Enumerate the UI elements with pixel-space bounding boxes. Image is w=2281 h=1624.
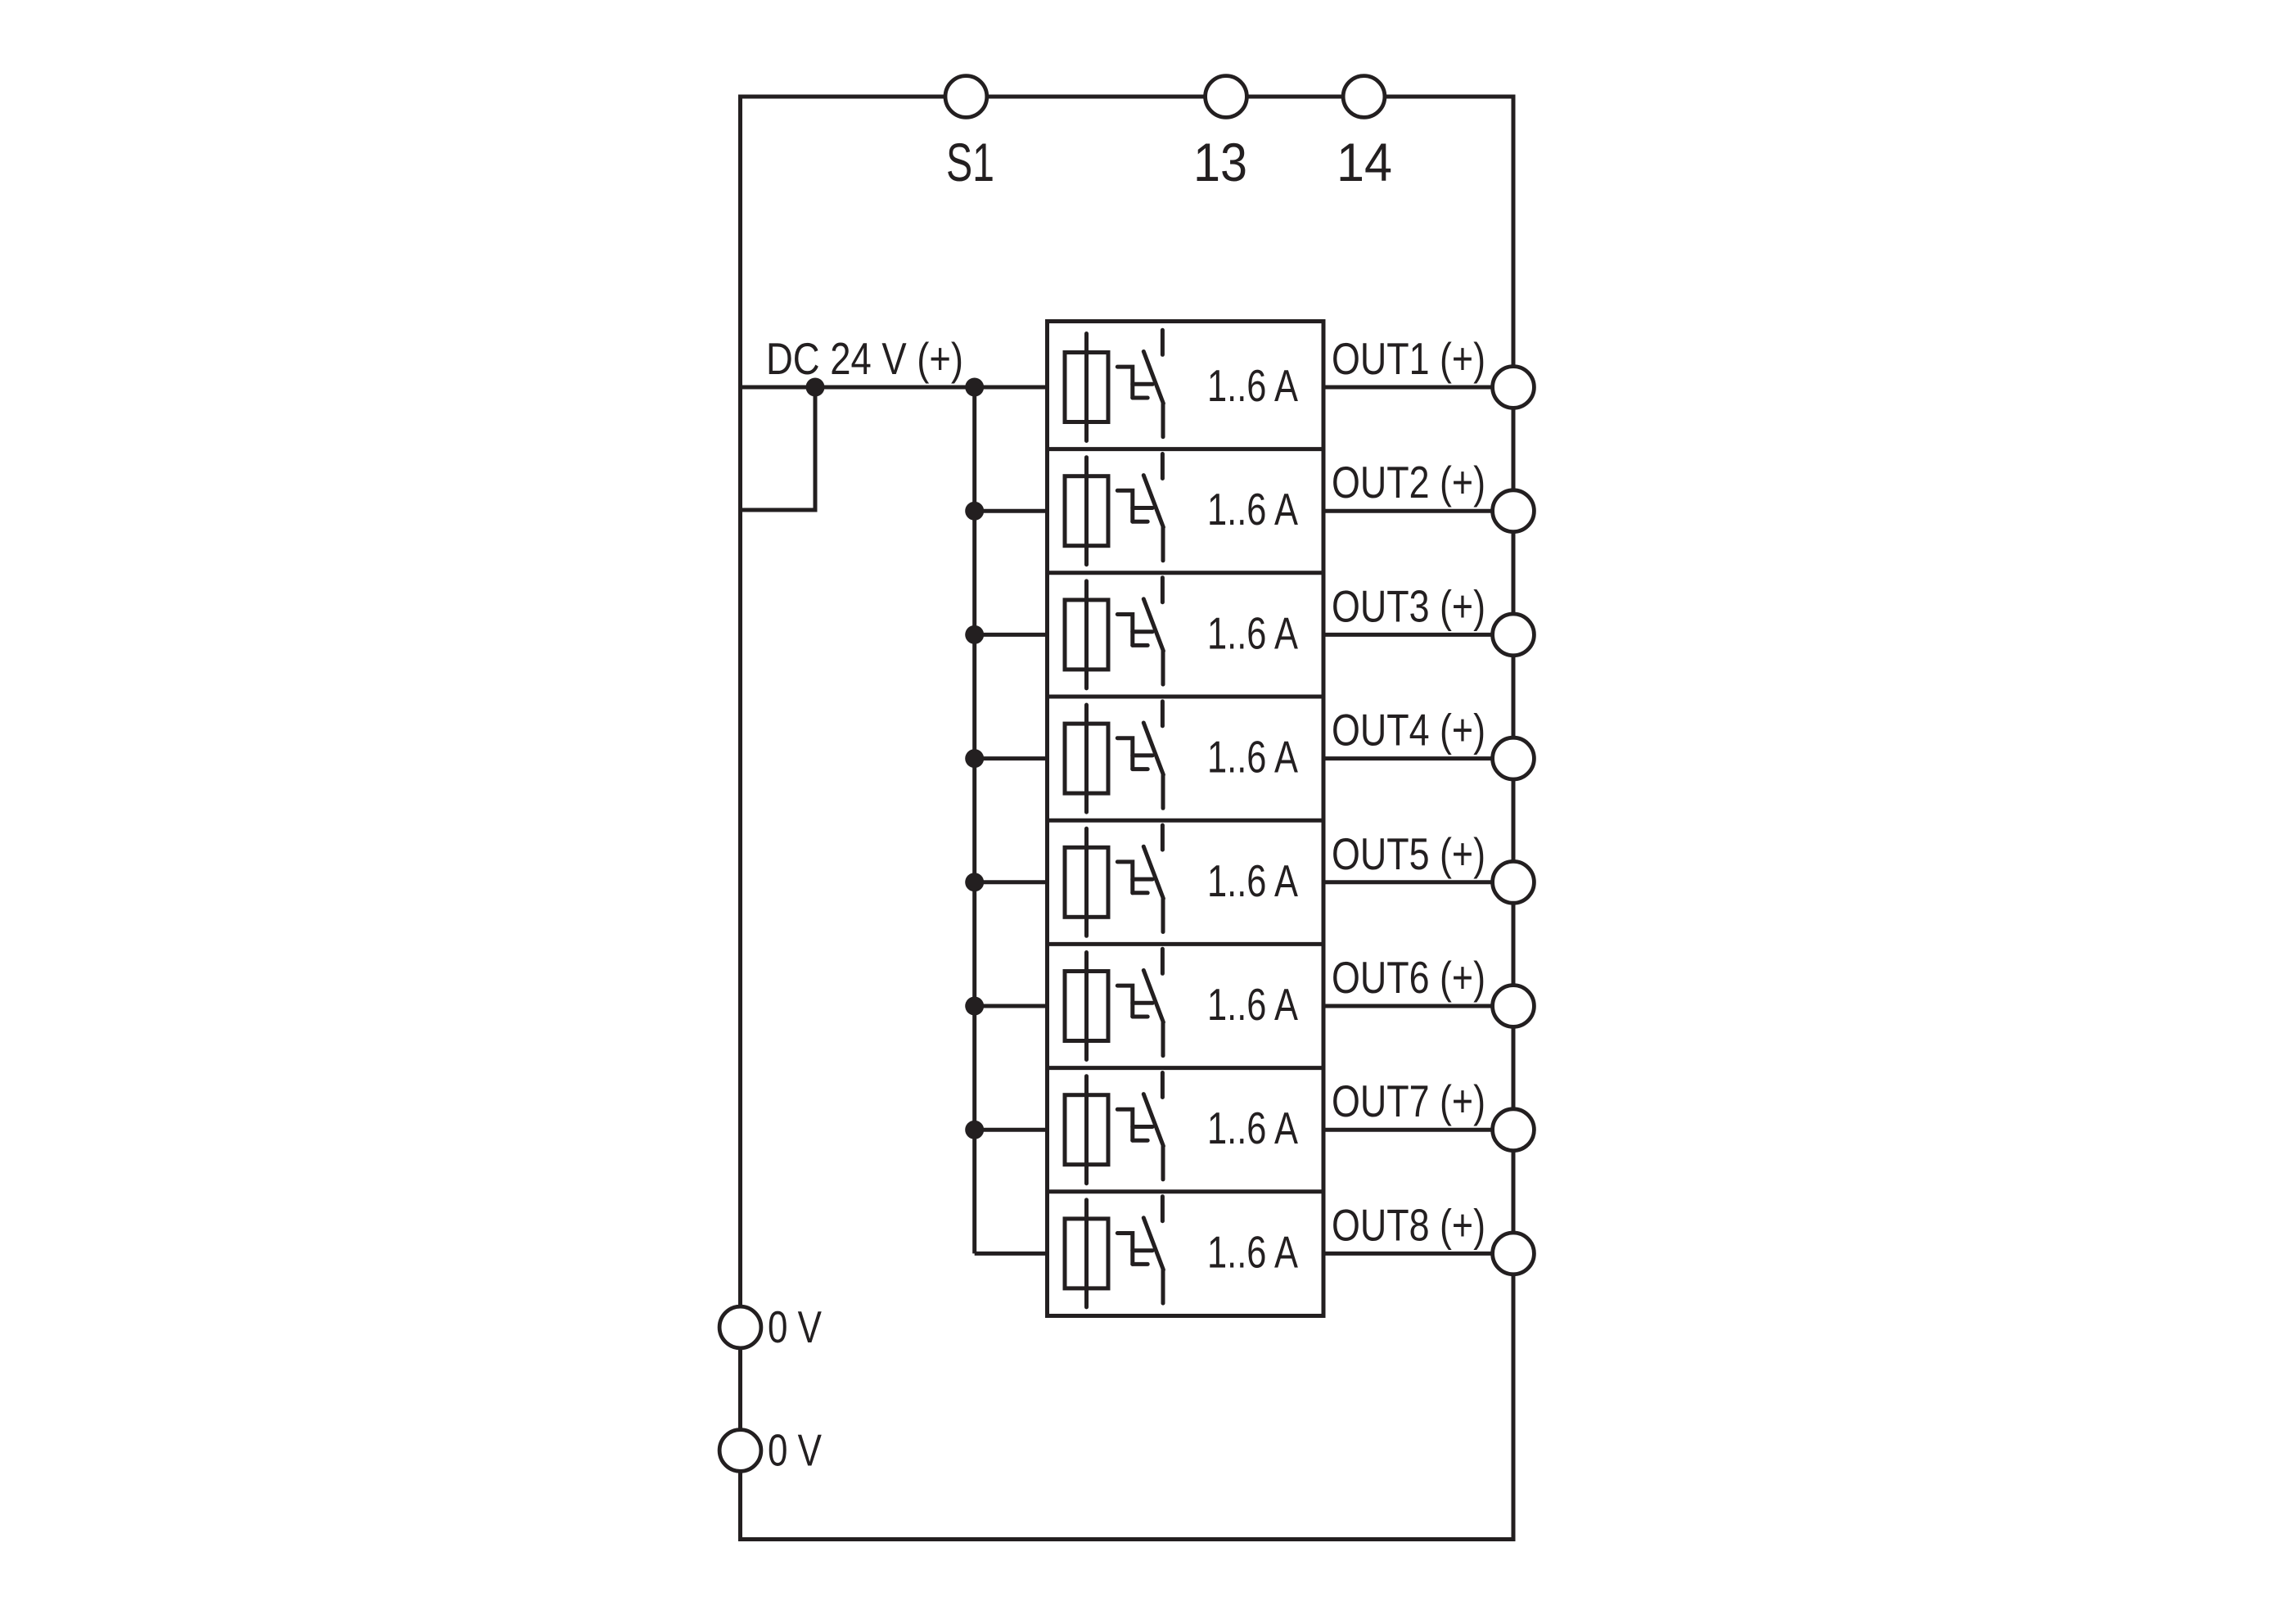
junction bus row 2 xyxy=(965,502,984,521)
terminal S1 xyxy=(945,76,987,118)
fuse F5 xyxy=(1065,828,1108,936)
wire OUT4 output xyxy=(1323,756,1513,760)
wire OUT2 output xyxy=(1323,509,1513,513)
junction bus row 3 xyxy=(965,625,984,644)
svg-text:OUT4 (+): OUT4 (+) xyxy=(1332,705,1485,756)
svg-text:S1: S1 xyxy=(946,132,994,192)
svg-text:1..6 A: 1..6 A xyxy=(1207,1226,1298,1277)
wire channel 5 input feed xyxy=(975,880,1048,884)
breaker switch contact Q6 xyxy=(1117,949,1163,1055)
fuse F7 xyxy=(1065,1076,1108,1184)
wire OUT1 output xyxy=(1323,386,1513,390)
wire DC 24 V feed xyxy=(741,386,1048,390)
fuse F2 xyxy=(1065,458,1108,565)
svg-text:OUT3 (+): OUT3 (+) xyxy=(1332,580,1485,631)
wire channel 3 input feed xyxy=(975,633,1048,637)
terminal 13 xyxy=(1206,76,1247,118)
wire channel 6 input feed xyxy=(975,1004,1048,1008)
cell divider 3 xyxy=(1048,695,1324,699)
breaker switch contact Q8 xyxy=(1117,1197,1163,1303)
breaker switch contact Q2 xyxy=(1117,454,1163,561)
cell divider 1 xyxy=(1048,447,1324,451)
wire stub to left rail xyxy=(741,387,816,510)
junction bus row 4 xyxy=(965,749,984,768)
junction bus row 7 xyxy=(965,1121,984,1139)
cell divider 2 xyxy=(1048,571,1324,575)
fuse F4 xyxy=(1065,705,1108,812)
breaker switch contact Q4 xyxy=(1117,701,1163,808)
terminal OUT5 xyxy=(1493,861,1535,903)
svg-text:1..6 A: 1..6 A xyxy=(1207,855,1298,906)
fuse F6 xyxy=(1065,953,1108,1060)
cell divider 5 xyxy=(1048,942,1324,946)
terminal OUT8 xyxy=(1493,1233,1535,1274)
wire channel 7 input feed xyxy=(975,1128,1048,1132)
breaker switch contact Q3 xyxy=(1117,578,1163,684)
terminal 0 V (upper) xyxy=(719,1306,761,1348)
wire distribution bus xyxy=(972,387,976,1253)
svg-text:OUT2 (+): OUT2 (+) xyxy=(1332,457,1485,508)
junction stub branch xyxy=(806,378,825,397)
terminal OUT3 xyxy=(1493,614,1535,656)
junction bus row 5 xyxy=(965,873,984,891)
module box (8-channel electronic circuit breaker) xyxy=(1048,322,1324,1316)
svg-text:OUT7 (+): OUT7 (+) xyxy=(1332,1076,1485,1126)
fuse F3 xyxy=(1065,581,1108,688)
svg-text:1..6 A: 1..6 A xyxy=(1207,484,1298,535)
svg-text:0 V: 0 V xyxy=(768,1301,822,1352)
terminal OUT4 xyxy=(1493,738,1535,779)
svg-text:1..6 A: 1..6 A xyxy=(1207,607,1298,658)
svg-text:1..6 A: 1..6 A xyxy=(1207,732,1298,783)
wire OUT8 output xyxy=(1323,1252,1513,1256)
breaker switch contact Q1 xyxy=(1117,330,1163,436)
wire outer frame loop xyxy=(741,97,1514,1540)
terminal OUT1 xyxy=(1493,367,1535,408)
fuse F8 xyxy=(1065,1200,1108,1307)
cell divider 6 xyxy=(1048,1066,1324,1070)
svg-text:1..6 A: 1..6 A xyxy=(1207,360,1298,411)
svg-text:OUT5 (+): OUT5 (+) xyxy=(1332,828,1485,879)
svg-text:OUT6 (+): OUT6 (+) xyxy=(1332,952,1485,1003)
terminal 14 xyxy=(1343,76,1385,118)
terminal OUT6 xyxy=(1493,986,1535,1027)
wire channel 8 input feed xyxy=(975,1252,1048,1256)
svg-text:14: 14 xyxy=(1337,132,1392,192)
svg-text:OUT8 (+): OUT8 (+) xyxy=(1332,1199,1485,1250)
svg-text:1..6 A: 1..6 A xyxy=(1207,979,1298,1030)
svg-text:1..6 A: 1..6 A xyxy=(1207,1103,1298,1153)
wire OUT6 output xyxy=(1323,1004,1513,1008)
svg-text:0 V: 0 V xyxy=(768,1425,822,1476)
breaker switch contact Q5 xyxy=(1117,825,1163,932)
svg-text:DC 24 V (+): DC 24 V (+) xyxy=(766,333,963,384)
wire channel 4 input feed xyxy=(975,756,1048,760)
junction bus row 1 xyxy=(965,378,984,397)
wire channel 2 input feed xyxy=(975,509,1048,513)
terminal 0 V (lower) xyxy=(719,1430,761,1472)
fuse F1 xyxy=(1065,334,1108,441)
cell divider 7 xyxy=(1048,1189,1324,1193)
terminal OUT2 xyxy=(1493,490,1535,532)
cell divider 4 xyxy=(1048,819,1324,823)
wire OUT7 output xyxy=(1323,1128,1513,1132)
wire OUT3 output xyxy=(1323,633,1513,637)
breaker switch contact Q7 xyxy=(1117,1073,1163,1180)
terminal OUT7 xyxy=(1493,1109,1535,1151)
junction bus row 6 xyxy=(965,997,984,1016)
svg-text:13: 13 xyxy=(1193,132,1247,192)
svg-text:OUT1 (+): OUT1 (+) xyxy=(1332,333,1485,384)
wire OUT5 output xyxy=(1323,880,1513,884)
